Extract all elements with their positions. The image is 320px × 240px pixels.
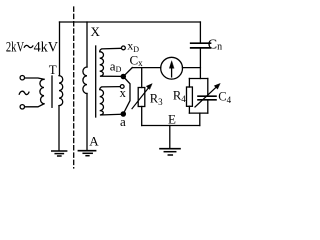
svg-text:T: T (49, 62, 57, 77)
svg-text:Cx: Cx (130, 53, 144, 69)
svg-text:C4: C4 (218, 90, 231, 106)
svg-text:4kV: 4kV (34, 39, 59, 55)
svg-text:Cn: Cn (208, 38, 222, 53)
svg-text:a: a (120, 114, 126, 129)
svg-text:A: A (89, 134, 99, 149)
svg-text:aD: aD (110, 58, 122, 73)
svg-text:2kV: 2kV (6, 39, 24, 55)
svg-text:R3: R3 (150, 92, 163, 108)
svg-text:x: x (120, 86, 127, 100)
svg-text:E: E (168, 111, 176, 126)
svg-text:X: X (91, 24, 101, 39)
svg-text:R4: R4 (173, 89, 186, 105)
